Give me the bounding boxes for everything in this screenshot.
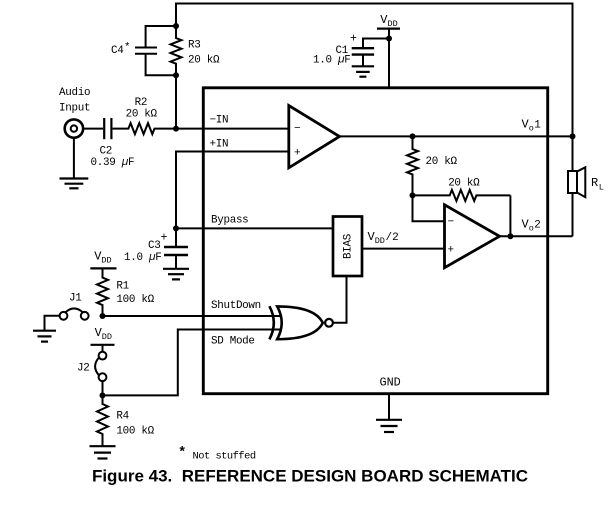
ground (R4) — [90, 446, 116, 458]
wire SD Mode — [103, 330, 281, 396]
svg-text:−IN: −IN — [210, 115, 229, 127]
node B (R3/C4 bottom junction) — [173, 72, 179, 78]
svg-text:Bypass: Bypass — [211, 215, 248, 227]
svg-text:C3: C3 — [148, 240, 160, 252]
svg-text:0.39 µF: 0.39 µF — [91, 157, 135, 169]
wire GND pin — [388, 394, 390, 420]
svg-text:20 kΩ: 20 kΩ — [426, 156, 458, 168]
node H (Vo2 junction) — [507, 233, 513, 239]
ground (audio input) — [60, 179, 89, 189]
svg-text:o: o — [529, 124, 534, 134]
resistor R3 — [171, 26, 182, 75]
resistor R4 — [97, 395, 108, 445]
svg-text:R4: R4 — [116, 411, 128, 423]
wire Bypass — [176, 227, 333, 229]
wire jack to C2 — [83, 128, 103, 130]
svg-text:Input: Input — [59, 103, 90, 115]
svg-text:C2: C2 — [100, 146, 112, 158]
node G (20k bottom junction) — [410, 192, 416, 198]
wire J1 to ground — [45, 316, 60, 330]
svg-text:*: * — [124, 42, 130, 54]
svg-text:L: L — [599, 183, 604, 193]
svg-text:100 kΩ: 100 kΩ — [116, 426, 154, 438]
resistor 20k (U1B feedback) — [413, 190, 511, 201]
node E (VDD/C1 junction) — [386, 36, 392, 42]
svg-text:ShutDown: ShutDown — [211, 300, 261, 312]
op-amp U1B — [445, 205, 500, 268]
wire VDD pin — [388, 29, 390, 88]
svg-text:J1: J1 — [69, 293, 82, 305]
power VDD (J2) — [91, 326, 115, 345]
svg-text:C4: C4 — [111, 45, 123, 57]
svg-text:20 kΩ: 20 kΩ — [126, 109, 158, 121]
svg-text:R1: R1 — [116, 281, 129, 293]
node J (ShutDown junction) — [100, 313, 106, 319]
svg-text:R3: R3 — [188, 40, 200, 52]
ground (J1) — [33, 331, 56, 342]
svg-text:+: + — [350, 33, 357, 46]
svg-text:−: − — [448, 217, 455, 229]
label R4 100 kOhm — [116, 411, 154, 438]
node K (SD Mode junction) — [100, 392, 106, 398]
svg-text:/2: /2 — [386, 232, 399, 244]
svg-text:+IN: +IN — [210, 139, 229, 151]
speaker RL — [568, 136, 585, 236]
capacitor C1 — [352, 39, 389, 66]
svg-text:1.0 µF: 1.0 µF — [124, 252, 161, 264]
label RL — [591, 176, 604, 193]
svg-text:GND: GND — [380, 376, 401, 390]
label R3 20 kOhm — [188, 40, 220, 67]
svg-text:+: + — [448, 245, 455, 257]
label C3 + 1.0 uF — [124, 232, 168, 265]
connector J3 audio input jack — [65, 119, 83, 137]
wire top rail — [176, 4, 573, 137]
IC box outline — [203, 88, 547, 394]
svg-text:*: * — [178, 445, 186, 461]
svg-text:J2: J2 — [77, 363, 89, 375]
ground (C1) — [352, 66, 374, 76]
label VDD/2 — [368, 230, 399, 246]
resistor 20k (feedback divider) — [407, 136, 418, 195]
wire -IN — [176, 128, 289, 130]
label C2 0.39 uF — [91, 146, 135, 170]
label R2 20 kOhm — [126, 97, 158, 121]
wire U1B plus input — [362, 248, 445, 250]
node C (-IN junction) — [173, 126, 179, 132]
power VDD (R1) — [90, 250, 116, 269]
label R1 100 kOhm — [116, 281, 154, 307]
svg-text:2: 2 — [534, 220, 540, 232]
wire U1A output to Vo1 — [340, 135, 573, 137]
node F (20k top junction) — [410, 133, 416, 139]
note Not stuffed — [178, 445, 256, 463]
pin label Vo1 — [522, 118, 542, 134]
svg-text:1: 1 — [534, 120, 541, 132]
label Audio Input — [59, 87, 90, 115]
svg-text:20 kΩ: 20 kΩ — [188, 55, 220, 67]
node I (Vo1/speaker junction) — [570, 133, 576, 139]
capacitor C2 — [104, 118, 111, 139]
node D (Bypass/C3 junction) — [173, 225, 179, 231]
gate U3 XNOR — [269, 306, 333, 339]
svg-text:100 kΩ: 100 kΩ — [116, 294, 154, 306]
svg-text:20 kΩ: 20 kΩ — [448, 178, 480, 190]
power VDD (top) — [377, 13, 400, 29]
resistor R2 — [113, 123, 176, 134]
label C1 + 1.0 uF — [313, 33, 357, 67]
ground (GND pin) — [376, 420, 402, 432]
svg-text:+: + — [294, 148, 301, 160]
svg-text:Figure 43. REFERENCE DESIGN B: Figure 43. REFERENCE DESIGN BOARD SCHEMA… — [92, 467, 528, 486]
svg-text:1.0 µF: 1.0 µF — [313, 55, 350, 67]
pin label Vo2 — [522, 218, 541, 234]
svg-text:DD: DD — [101, 256, 111, 266]
wire ShutDown — [103, 315, 281, 317]
svg-text:DD: DD — [375, 236, 385, 246]
svg-text:Audio: Audio — [59, 87, 90, 99]
wire XNOR output to BIAS — [333, 276, 347, 323]
capacitor C4 — [135, 26, 176, 75]
svg-text:Not stuffed: Not stuffed — [193, 451, 256, 463]
op-amp U1A — [289, 106, 340, 168]
BIAS block U2 — [333, 217, 362, 277]
wire +IN — [176, 152, 289, 229]
jumper J1 — [60, 308, 89, 319]
svg-text:DD: DD — [102, 332, 112, 342]
capacitor C3 — [164, 228, 188, 268]
wire U1B output Vo2 — [500, 235, 573, 237]
svg-text:R: R — [591, 176, 598, 190]
wire feedback to U1B output — [509, 195, 511, 236]
wire jack to ground — [73, 139, 75, 178]
ground (C3) — [163, 269, 189, 280]
resistor R1 — [97, 268, 108, 316]
svg-text:BIAS: BIAS — [342, 234, 354, 259]
jumper J2 — [95, 345, 106, 396]
wire 20k junction to U1B minus input — [413, 195, 445, 221]
svg-text:o: o — [529, 224, 534, 234]
svg-text:R2: R2 — [135, 97, 147, 109]
svg-text:DD: DD — [388, 19, 398, 29]
svg-text:+: + — [161, 232, 168, 245]
svg-text:SD Mode: SD Mode — [211, 336, 255, 348]
svg-text:−: − — [294, 123, 301, 135]
wire R3 bottom to -IN node — [175, 75, 177, 128]
node A (R3/C4 top junction) — [173, 23, 179, 29]
